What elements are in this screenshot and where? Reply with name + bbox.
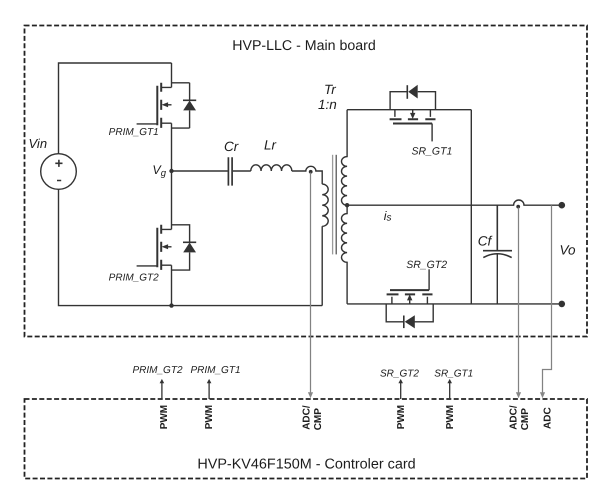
body diode of PRIM_GT2: [172, 225, 197, 270]
svg-text:HVP-KV46F150M - Controler card: HVP-KV46F150M - Controler card: [197, 457, 415, 473]
transistor PRIM_GT2: [137, 171, 172, 306]
svg-text:1:n: 1:n: [318, 97, 337, 112]
transistor PRIM_GT1: [137, 63, 172, 171]
svg-text:SR_GT1: SR_GT1: [434, 368, 473, 379]
svg-text:PWM: PWM: [204, 405, 215, 429]
svg-text:Cf: Cf: [478, 233, 493, 248]
output terminal top: [559, 202, 566, 209]
pin label ADC/CMP 1: [302, 405, 324, 430]
svg-text:SR_GT1: SR_GT1: [412, 145, 453, 157]
svg-text:ADC: ADC: [542, 407, 553, 429]
pin label ADC/CMP 2: [509, 405, 532, 430]
body diode of SR_GT1: [390, 85, 435, 110]
junction dot resonant node: [309, 170, 313, 174]
transistor SR_GT2: [387, 269, 433, 304]
svg-text:PWM: PWM: [396, 405, 407, 429]
wire output bottom rail: [347, 303, 562, 305]
svg-text:ADC/: ADC/: [509, 405, 520, 430]
transformer Tr primary winding: [322, 184, 328, 306]
junction dot PRIM_GT2 source: [169, 303, 173, 307]
wire output top rail with hop: [347, 200, 562, 205]
junction dot under hop 2: [516, 205, 520, 209]
junction dot center tap: [345, 203, 349, 207]
svg-text:PRIM_GT2: PRIM_GT2: [133, 365, 183, 376]
svg-text:HVP-LLC - Main board: HVP-LLC - Main board: [232, 38, 376, 54]
capacitor Cf: [483, 205, 512, 304]
wire Vg to Cr: [172, 170, 228, 172]
sense wire ADC/CMP output: [516, 208, 521, 399]
transformer core: [332, 155, 334, 255]
wire Vin top to half-bridge: [59, 63, 172, 154]
pin PWM PRIM_GT2: [160, 379, 165, 399]
svg-text:PWM: PWM: [159, 405, 170, 429]
sense wire ADC/CMP resonant node: [308, 173, 313, 399]
svg-text:Vin: Vin: [29, 136, 48, 151]
svg-text:PRIM_GT1: PRIM_GT1: [191, 365, 241, 376]
pin PWM SR_GT2: [398, 379, 403, 399]
svg-text:Vg: Vg: [152, 163, 166, 179]
controller card box: [25, 399, 588, 479]
body diode of SR_GT2: [386, 304, 433, 329]
svg-text:PWM: PWM: [445, 405, 456, 429]
inductor Lr: [251, 165, 292, 171]
svg-text:PRIM_GT2: PRIM_GT2: [109, 273, 159, 284]
wire Vin bottom rail: [59, 189, 323, 305]
svg-text:SR_GT2: SR_GT2: [406, 259, 447, 271]
svg-text:is: is: [384, 209, 392, 224]
output terminal bottom: [559, 301, 566, 308]
svg-text:CMP: CMP: [313, 408, 324, 431]
svg-text:CMP: CMP: [520, 408, 531, 431]
main board box: [25, 26, 588, 337]
source Vin: [41, 154, 77, 190]
wire Cr to Lr: [233, 170, 251, 172]
svg-text:SR_GT2: SR_GT2: [380, 368, 419, 379]
svg-text:Cr: Cr: [224, 139, 239, 154]
svg-text:Tr: Tr: [324, 82, 336, 97]
wire Lr to transformer with hop: [292, 166, 322, 184]
node Vg junction dot: [169, 169, 173, 173]
pin PWM SR_GT1: [447, 379, 452, 399]
svg-text:Lr: Lr: [264, 138, 277, 153]
pin PWM PRIM_GT1: [207, 379, 212, 399]
sense wire ADC output: [540, 205, 552, 398]
capacitor Cr: [228, 157, 232, 185]
transistor SR_GT1: [347, 110, 471, 142]
transformer Tr secondary winding: [342, 110, 348, 304]
svg-text:ADC/: ADC/: [302, 405, 313, 430]
wire SR right bus: [470, 110, 472, 304]
svg-text:PRIM_GT1: PRIM_GT1: [109, 127, 159, 138]
body diode of PRIM_GT1: [172, 83, 197, 128]
svg-text:Vo: Vo: [560, 243, 577, 258]
